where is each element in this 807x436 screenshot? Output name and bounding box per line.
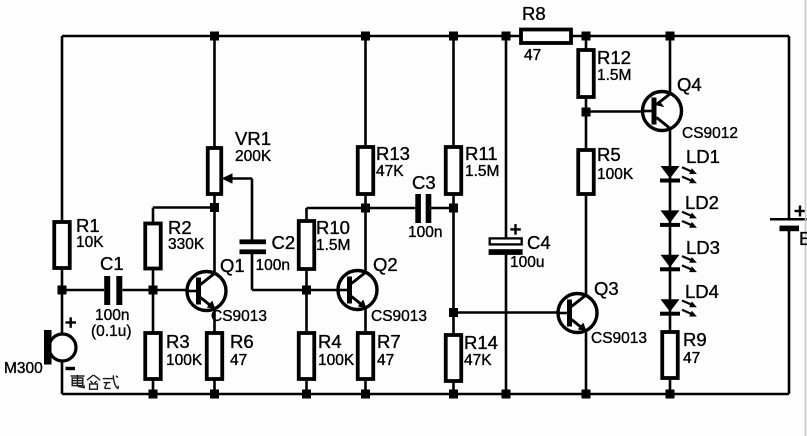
svg-text:C3: C3 (412, 172, 436, 193)
wire C1 to Q1 base (123, 289, 188, 292)
svg-text:E: E (799, 228, 807, 249)
svg-text:1.5M: 1.5M (465, 163, 499, 180)
wire VR1 wiper down to C2 (251, 179, 254, 241)
svg-text:C1: C1 (100, 253, 124, 274)
wire R2 column (152, 208, 155, 291)
svg-text:100K: 100K (597, 166, 634, 183)
svg-text:VR1: VR1 (235, 128, 271, 149)
wire R11 R14 column (452, 36, 455, 394)
battery E (770, 206, 807, 232)
resistor R6 (207, 333, 223, 379)
svg-text:47K: 47K (376, 163, 404, 180)
svg-text:1.5M: 1.5M (316, 237, 350, 254)
wire C3 to R11 column (431, 207, 454, 210)
led LD1 (660, 166, 697, 183)
node top rail R12 (582, 32, 591, 41)
wire R10 R4 column (305, 208, 308, 394)
svg-text:47: 47 (377, 352, 394, 369)
node ground R4 (302, 390, 311, 399)
svg-text:M300: M300 (4, 360, 43, 377)
node top rail C4 (502, 32, 511, 41)
svg-text:330K: 330K (168, 236, 205, 253)
transistor Q3 (558, 294, 597, 333)
resistor R3 (145, 333, 161, 379)
svg-text:1.5M: 1.5M (597, 67, 631, 84)
svg-text:LD2: LD2 (685, 192, 719, 213)
resistor R7 (358, 333, 374, 379)
wire C4 lower to ground (505, 254, 508, 394)
wire Q4 collector LED chain R9 column (669, 129, 672, 394)
transistor Q2 (338, 271, 377, 310)
svg-text:R7: R7 (377, 331, 401, 352)
svg-text:100n: 100n (256, 257, 290, 274)
svg-text:47: 47 (683, 350, 700, 367)
wire node A to C1 (62, 289, 104, 292)
node top rail R13 (361, 32, 370, 41)
transistor Q4 pnp (643, 92, 682, 131)
wire R3 column (152, 290, 155, 394)
wire Q2 emitter through R7 to ground (364, 306, 367, 394)
potentiometer VR1 (208, 148, 233, 194)
svg-text:CS9013: CS9013 (371, 308, 427, 325)
svg-text:100K: 100K (318, 352, 355, 369)
wire Q4 emitter to rail (669, 36, 672, 93)
wire Q3 emitter to ground (585, 331, 588, 394)
svg-text:R1: R1 (76, 215, 100, 236)
wire C2 down to Q2 base row (251, 253, 254, 290)
transistor Q1 (187, 272, 226, 311)
svg-text:200K: 200K (235, 148, 272, 165)
svg-text:Q4: Q4 (677, 74, 702, 95)
label electret type chinese (71, 375, 119, 389)
svg-text:R4: R4 (318, 331, 342, 352)
svg-text:Q3: Q3 (594, 278, 619, 299)
resistor R12 (578, 50, 594, 97)
svg-text:CS9012: CS9012 (682, 125, 738, 142)
node ground Q3 emitter (582, 390, 591, 399)
resistor R9 (662, 332, 678, 378)
wire VR1 wiper horizontal (224, 177, 252, 180)
capacitor C3 (415, 194, 431, 223)
resistor R14 (446, 335, 462, 381)
node ground R14 (449, 390, 458, 399)
wire Q3 base row (454, 311, 559, 314)
capacitor C2 (240, 239, 267, 254)
node ground C4 (502, 390, 511, 399)
svg-text:Q2: Q2 (373, 254, 398, 275)
svg-text:R5: R5 (597, 144, 621, 165)
wire VR1 column (213, 36, 216, 208)
svg-text:R3: R3 (166, 331, 190, 352)
svg-text:CS9013: CS9013 (211, 308, 267, 325)
wire R1 junction to microphone (61, 290, 64, 336)
svg-text:LD1: LD1 (686, 146, 720, 167)
node top rail R11 (449, 32, 458, 41)
node R13 bottom junction (361, 204, 370, 213)
svg-text:LD3: LD3 (686, 237, 720, 258)
resistor R5 (578, 150, 594, 194)
capacitor C1 (104, 276, 122, 305)
svg-text:R11: R11 (465, 143, 498, 164)
wire Q2 base row (252, 289, 338, 292)
wire right rail to battery + (788, 36, 791, 220)
microphone M300 (44, 317, 76, 368)
svg-text:CS9013: CS9013 (591, 330, 647, 347)
wire Q4 base row (586, 110, 643, 113)
svg-text:R6: R6 (230, 331, 254, 352)
capacitor C4 electrolytic (489, 224, 523, 255)
svg-text:C2: C2 (272, 232, 296, 253)
svg-text:R2: R2 (168, 217, 192, 238)
svg-text:R12: R12 (597, 47, 631, 68)
node R10 R4 base junction (302, 286, 311, 295)
node top rail Q4 emitter (666, 32, 675, 41)
wire mid row left of C3 (307, 207, 416, 210)
svg-text:(0.1u): (0.1u) (91, 323, 132, 340)
svg-text:100K: 100K (166, 352, 203, 369)
svg-text:R8: R8 (522, 3, 546, 24)
svg-text:R10: R10 (316, 217, 350, 238)
svg-text:10K: 10K (76, 234, 104, 251)
resistor R1 (54, 222, 70, 268)
right edge scan line (805, 0, 807, 436)
wire Q1 collector (213, 208, 216, 276)
resistor R4 (299, 333, 315, 379)
svg-text:47K: 47K (464, 352, 492, 369)
wire R2 top horizontal (153, 206, 215, 209)
wire microphone to ground rail (61, 359, 64, 394)
resistor R11 (446, 147, 462, 194)
led LD2 (660, 210, 697, 227)
wire battery - to ground rail (788, 229, 791, 394)
node ground R9 (666, 390, 675, 399)
node R12 R5 junction (582, 108, 591, 117)
node VR1 bottom junction (210, 203, 219, 212)
svg-text:100n: 100n (95, 307, 129, 324)
node ground R3 (149, 390, 158, 399)
wire C4 upper (505, 36, 508, 239)
resistor R8 (521, 30, 571, 44)
resistor R2 (145, 224, 161, 269)
wire R13 column and Q2 collector (364, 36, 367, 274)
svg-text:R9: R9 (683, 329, 707, 350)
node ground R6 (210, 390, 219, 399)
wire top supply rail (62, 35, 789, 38)
wire R12 R5 column to Q3 collector (585, 36, 588, 295)
svg-text:100u: 100u (510, 254, 544, 271)
node top rail VR1 (210, 32, 219, 41)
svg-text:C4: C4 (527, 232, 551, 253)
svg-text:LD4: LD4 (685, 281, 719, 302)
svg-text:R13: R13 (376, 143, 410, 164)
node R2 R3 base junction (149, 286, 158, 295)
resistor R10 (299, 221, 315, 269)
svg-text:Q1: Q1 (220, 255, 245, 276)
led LD4 (660, 299, 697, 316)
wire left rail down to R1 (61, 36, 64, 290)
node R1 C1 junction (58, 286, 67, 295)
node R11 C3 junction (449, 204, 458, 213)
node R14 Q3 base junction (449, 308, 458, 317)
led LD3 (660, 255, 697, 272)
wire Q1 emitter through R6 to ground (213, 307, 216, 394)
resistor R13 (358, 147, 374, 194)
wire bottom ground rail (62, 393, 789, 396)
svg-text:47: 47 (230, 352, 247, 369)
node ground R7 (361, 390, 370, 399)
svg-text:100n: 100n (408, 224, 442, 241)
svg-text:R14: R14 (464, 332, 498, 353)
svg-text:47: 47 (524, 47, 541, 64)
